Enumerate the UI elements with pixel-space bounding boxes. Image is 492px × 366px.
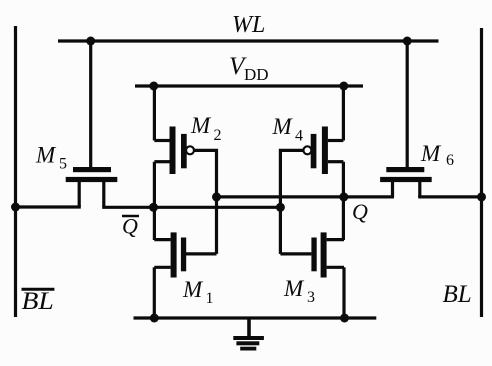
junction: VDD / right column [339, 82, 348, 91]
svg-text:6: 6 [446, 152, 454, 169]
label BLbar [22, 288, 55, 315]
junction: Qbar line / left column [149, 203, 158, 212]
transistor M5 (NMOS access, horizontal) [66, 167, 118, 207]
wire: M4 source stub down to M3 drain stub [342, 162, 345, 240]
svg-text:4: 4 [295, 128, 303, 145]
wire: Qbar node line (M5 to M4/M3 gate column) [102, 206, 280, 209]
transistor M1 (NMOS, left inverter pull-down) [154, 232, 216, 277]
svg-text:WL: WL [232, 12, 265, 38]
wire: right bitline rail BL [480, 28, 483, 317]
svg-text:3: 3 [307, 289, 315, 306]
junction: WL / M5 gate [86, 37, 95, 46]
svg-text:DD: DD [244, 65, 269, 84]
label M5 [35, 143, 67, 173]
wire: right gate column down to M3 gate [279, 207, 282, 254]
wire: WL to M5 gate [89, 41, 92, 168]
transistor M3 (NMOS, right inverter pull-down) [280, 232, 344, 277]
label Qbar [122, 214, 139, 239]
svg-text:M: M [272, 114, 294, 139]
label M2 [190, 113, 222, 144]
wire: left rail to M5 left stub [16, 205, 81, 208]
svg-text:Q: Q [122, 214, 138, 239]
junction: VDD / left column [149, 82, 158, 91]
svg-text:BL: BL [22, 288, 54, 315]
svg-text:M: M [420, 141, 442, 166]
transistor M2 (PMOS, left inverter pull-up) [154, 127, 194, 175]
svg-text:M: M [190, 113, 212, 138]
wire: M6 right stub to right rail [418, 195, 481, 198]
wire: ground rail [134, 316, 377, 319]
junction: WL / M6 gate [403, 37, 412, 46]
junction: ground rail left [150, 314, 159, 323]
wire: Q node line (M2/M1 gate column to M6 left stub) [216, 195, 394, 198]
junction: Q line / right column [339, 192, 348, 201]
junction: Qbar line / right gate column [276, 203, 285, 212]
svg-text:M: M [283, 276, 305, 301]
wire: left gate column down to M1 gate [215, 197, 218, 254]
label M6 [420, 141, 454, 169]
wire: VDD to M4 drain stub [342, 86, 345, 140]
svg-text:M: M [35, 143, 57, 168]
wire: M4 gate lead to cross-couple column [280, 150, 303, 207]
svg-text:M: M [182, 277, 204, 302]
label M4 [272, 114, 304, 145]
junction: ground rail right [340, 314, 349, 323]
svg-text:5: 5 [59, 156, 67, 173]
wire: WL to M6 gate [406, 41, 409, 168]
label M3 [283, 276, 315, 306]
ground symbol [233, 318, 264, 351]
svg-text:2: 2 [214, 127, 222, 144]
transistor M4 (PMOS, right inverter pull-up) [303, 127, 343, 175]
wire: M2 source stub down to Qbar line [153, 162, 156, 240]
label VDD [229, 53, 269, 84]
junction: Q line / left gate column [212, 192, 221, 201]
wire: M1 source stub to ground rail [153, 267, 156, 318]
wire: word line WL [58, 39, 439, 42]
label M1 [182, 277, 214, 307]
junction: right rail / M6 [477, 192, 486, 201]
svg-text:BL: BL [443, 281, 472, 308]
wire: left bitline rail BLbar [14, 26, 17, 317]
junction: left rail / M5 [11, 203, 20, 212]
transistor M6 (NMOS access, horizontal) [380, 167, 432, 197]
svg-text:Q: Q [352, 199, 368, 224]
wire: VDD rail [135, 84, 363, 87]
svg-text:1: 1 [206, 290, 214, 307]
wire: M2 gate lead to cross-couple column [194, 150, 217, 197]
wire: VDD to M2 drain stub [153, 86, 156, 141]
wire: M3 source stub to ground rail [342, 267, 345, 318]
